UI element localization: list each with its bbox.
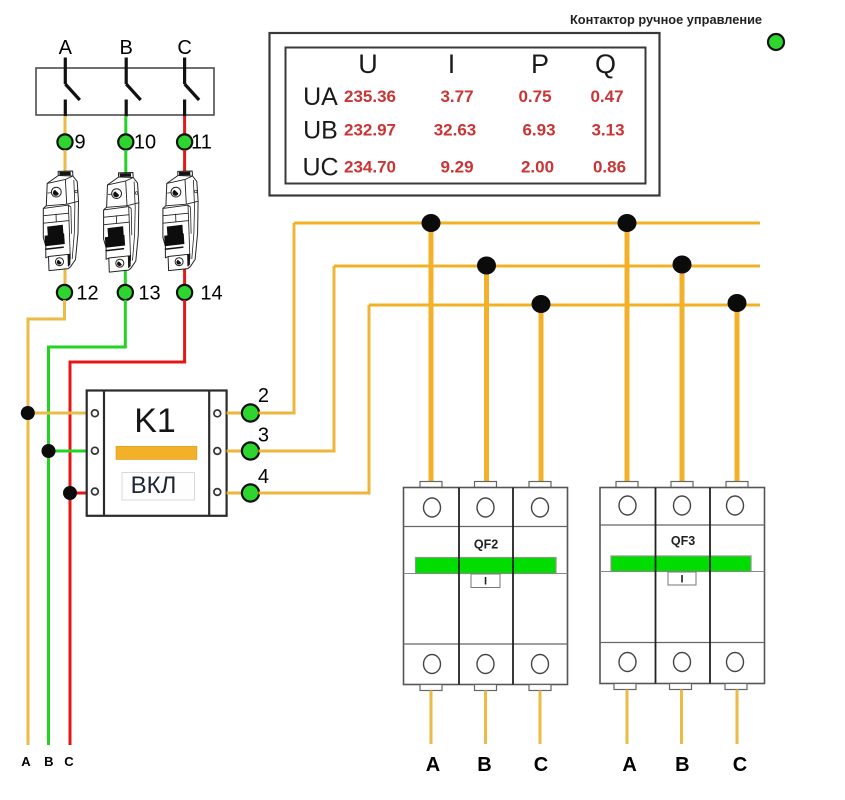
svg-text:I: I xyxy=(448,49,456,79)
K1 state label frame xyxy=(122,473,195,501)
drop bus L1 to QF3 pole A xyxy=(625,223,630,484)
circuit breaker pole A xyxy=(43,171,78,271)
wire A box to node 9 xyxy=(64,116,67,134)
terminal 2 xyxy=(242,404,259,421)
svg-text:235.36: 235.36 xyxy=(344,87,396,106)
switch pole C xyxy=(185,58,200,117)
svg-text:13: 13 xyxy=(138,283,160,305)
wire phase A node 12 to bottom xyxy=(28,300,65,745)
manual control indicator lamp xyxy=(768,34,784,50)
circuit breaker pole B xyxy=(104,173,139,273)
junction L1 QF2 xyxy=(422,214,441,232)
junction L3 QF2 xyxy=(532,295,551,313)
svg-text:32.63: 32.63 xyxy=(434,121,477,140)
drop bus L2 to QF3 pole B xyxy=(680,266,685,484)
junction phase C xyxy=(63,486,77,500)
K1 left terminal pins xyxy=(92,410,99,495)
svg-text:I: I xyxy=(484,576,487,588)
svg-text:QF3: QF3 xyxy=(671,534,695,548)
bus L1 xyxy=(294,222,760,225)
svg-text:UC: UC xyxy=(302,154,338,182)
QF2 top ports xyxy=(424,498,549,517)
svg-text:K1: K1 xyxy=(134,402,176,440)
svg-text:B: B xyxy=(120,37,133,59)
QF3 under-bar line xyxy=(600,571,765,573)
svg-text:14: 14 xyxy=(200,283,222,305)
QF3 output wire A xyxy=(626,690,629,745)
svg-text:234.70: 234.70 xyxy=(344,158,396,177)
meter table outer frame xyxy=(270,33,660,196)
svg-text:UB: UB xyxy=(303,117,338,145)
wire C box to node 11 xyxy=(183,116,186,134)
junction L2 QF3 xyxy=(673,256,692,274)
svg-text:B: B xyxy=(675,754,689,776)
drop bus L2 to QF2 pole B xyxy=(484,266,489,484)
svg-text:B: B xyxy=(44,754,53,769)
bus L2 xyxy=(334,265,760,268)
QF2 top tabs xyxy=(420,482,551,488)
node 9 xyxy=(57,134,72,149)
wire terminal 2 to bus L1 xyxy=(259,223,295,413)
node 10 xyxy=(118,134,133,149)
svg-text:6.93: 6.93 xyxy=(522,121,555,140)
svg-text:A: A xyxy=(21,754,31,769)
node 14 xyxy=(177,285,192,300)
svg-text:QF2: QF2 xyxy=(474,538,498,552)
svg-text:10: 10 xyxy=(134,132,156,154)
wire node 11 to breaker 3 xyxy=(183,150,186,172)
switch pole B xyxy=(126,58,141,117)
svg-text:2: 2 xyxy=(258,385,269,407)
QF2 output wire B xyxy=(484,691,487,745)
svg-text:B: B xyxy=(477,754,491,776)
QF3 section lines xyxy=(600,525,765,643)
svg-text:3.13: 3.13 xyxy=(591,121,624,140)
QF2 pole dividers xyxy=(459,488,513,685)
node 12 xyxy=(57,285,72,300)
drop bus L1 to QF2 pole A xyxy=(429,223,434,484)
circuit breaker pole C xyxy=(163,171,198,271)
QF3 switch position box xyxy=(668,572,696,585)
node 11 xyxy=(177,134,192,149)
svg-text:C: C xyxy=(733,754,747,776)
svg-text:11: 11 xyxy=(191,132,212,154)
svg-text:0.75: 0.75 xyxy=(518,87,551,106)
svg-text:3: 3 xyxy=(258,425,269,447)
wire breaker 2 to node 13 xyxy=(124,267,127,285)
svg-text:C: C xyxy=(64,754,74,769)
wire node 10 to breaker 2 xyxy=(124,150,127,173)
svg-text:9: 9 xyxy=(74,132,85,154)
switch pole A xyxy=(65,58,80,117)
QF2 body xyxy=(404,488,568,685)
meter table inner frame xyxy=(286,48,646,184)
QF3 body xyxy=(600,488,765,684)
wire terminal 4 to bus L3 xyxy=(259,305,370,493)
svg-text:0.86: 0.86 xyxy=(593,158,626,177)
junction L3 QF3 xyxy=(728,294,747,312)
node 13 xyxy=(118,285,133,300)
QF2 under-bar line xyxy=(404,573,568,575)
QF2 output wire A xyxy=(430,691,433,745)
QF3 green state bar xyxy=(611,556,751,572)
QF2 bottom tabs xyxy=(420,685,551,691)
svg-text:A: A xyxy=(59,37,73,59)
drop bus L3 to QF3 pole C xyxy=(735,305,740,484)
K1 right terminal pins xyxy=(214,410,221,495)
QF3 output wire B xyxy=(680,690,683,745)
svg-text:A: A xyxy=(426,754,440,776)
svg-text:UA: UA xyxy=(303,83,338,111)
QF2 bottom ports xyxy=(424,655,549,674)
wire phase B node 13 to bottom xyxy=(49,300,126,745)
wire K1 to terminal 4 xyxy=(227,492,243,495)
svg-text:Q: Q xyxy=(595,49,616,79)
drop bus L3 to QF2 pole C xyxy=(539,305,544,484)
terminal 3 xyxy=(242,442,259,459)
K1 right terminal strip xyxy=(208,391,210,516)
contactor K1 body xyxy=(87,391,227,516)
QF3 pole dividers xyxy=(656,488,711,684)
svg-text:C: C xyxy=(177,37,191,59)
svg-text:12: 12 xyxy=(76,283,98,305)
bus L3 xyxy=(369,304,760,307)
svg-text:I: I xyxy=(680,574,683,586)
junction phase A xyxy=(21,406,35,420)
values row UA xyxy=(344,87,624,106)
junction L1 QF3 xyxy=(618,214,637,232)
svg-text:2.00: 2.00 xyxy=(521,158,554,177)
wire phase B tap to K1 coil terminal xyxy=(49,450,89,453)
wire B box to node 10 xyxy=(124,116,127,134)
svg-text:0.47: 0.47 xyxy=(590,87,623,106)
svg-text:C: C xyxy=(534,754,548,776)
svg-text:A: A xyxy=(622,754,636,776)
svg-text:Контактор ручное управление: Контактор ручное управление xyxy=(570,12,762,27)
QF3 top tabs xyxy=(616,482,748,488)
wire breaker 1 to node 12 xyxy=(64,266,67,285)
junction L2 QF2 xyxy=(477,257,496,275)
QF3 top ports xyxy=(619,496,744,515)
QF2 switch position box xyxy=(471,574,500,588)
svg-text:P: P xyxy=(531,49,549,79)
values row UB xyxy=(344,121,625,140)
svg-text:ВКЛ: ВКЛ xyxy=(131,472,177,499)
junction phase B xyxy=(42,444,56,458)
wire node 9 to breaker 1 xyxy=(64,150,67,172)
svg-text:4: 4 xyxy=(258,466,269,488)
svg-text:232.97: 232.97 xyxy=(344,121,396,140)
wire phase A tap to K1 coil terminal xyxy=(28,412,88,415)
QF2 output wire C xyxy=(539,691,542,745)
wire breaker 3 to node 14 xyxy=(183,266,186,285)
wire terminal 3 to bus L2 xyxy=(259,266,335,451)
QF3 bottom tabs xyxy=(614,684,747,690)
QF2 section lines xyxy=(404,527,568,645)
QF2 green state bar xyxy=(416,558,557,574)
wire K1 to terminal 2 xyxy=(227,412,243,415)
svg-text:9.29: 9.29 xyxy=(440,158,473,177)
svg-text:U: U xyxy=(358,49,378,79)
terminal 4 xyxy=(242,484,259,501)
QF3 output wire C xyxy=(736,690,739,745)
QF3 bottom ports xyxy=(619,653,744,672)
wire K1 to terminal 3 xyxy=(227,450,243,453)
wire phase C tap to K1 coil terminal xyxy=(70,492,88,495)
wire phase C node 14 to bottom xyxy=(70,300,185,745)
K1 orange state bar xyxy=(116,446,197,459)
K1 left terminal strip xyxy=(103,391,105,516)
values row UC xyxy=(344,158,626,177)
svg-text:3.77: 3.77 xyxy=(440,87,473,106)
disconnect switch box QS xyxy=(36,68,214,115)
